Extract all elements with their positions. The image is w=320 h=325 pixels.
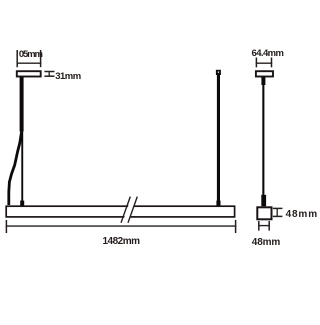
svg-text:48mm: 48mm <box>252 237 281 248</box>
svg-text:05mm: 05mm <box>19 49 43 60</box>
svg-text:1482mm: 1482mm <box>103 236 141 247</box>
svg-text:48mm: 48mm <box>286 209 318 220</box>
svg-text:31mm: 31mm <box>55 71 81 82</box>
svg-text:64.4mm: 64.4mm <box>252 48 285 59</box>
